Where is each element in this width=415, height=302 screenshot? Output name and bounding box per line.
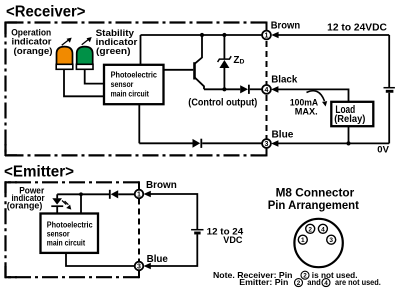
diode D4 triangle — [111, 190, 119, 198]
arrow into emitter pin 1 — [144, 191, 151, 198]
diode D2 triangle — [193, 139, 201, 148]
wire diode D4 to pin 1 — [118, 193, 135, 195]
svg-text:main circuit: main circuit — [47, 238, 85, 248]
pin 3 — [262, 139, 271, 148]
wire load to 0V rail — [348, 126, 350, 143]
LED light emission arrows — [62, 201, 71, 210]
svg-text:VDC: VDC — [223, 235, 242, 246]
battery B1 top lead — [388, 35, 390, 87]
wire main circuit bottom to blue line — [138, 104, 140, 143]
svg-text:Brown: Brown — [146, 180, 177, 191]
diode D2 cathode bar — [200, 139, 202, 148]
LED power indicator triangle — [52, 198, 62, 204]
svg-text:Brown: Brown — [271, 21, 300, 32]
0V rail wire — [278, 142, 390, 144]
emitter enclosure corner stubs — [5, 182, 17, 278]
blue internal wire left part — [139, 142, 192, 144]
note line 2 circled pin 2 — [295, 279, 303, 288]
battery B2 bottom lead — [150, 235, 197, 267]
svg-text:1: 1 — [137, 192, 141, 199]
load box — [331, 102, 373, 126]
LED power indicator cathode lead — [56, 207, 58, 214]
svg-text:Pin Arrangement: Pin Arrangement — [268, 200, 359, 212]
wire pin 1 to battery positive — [278, 34, 389, 36]
current flow arrow 100mA — [307, 91, 328, 107]
diode D1 cathode bar — [248, 85, 250, 94]
svg-text:3: 3 — [265, 141, 269, 148]
transistor Q1 emitter — [195, 78, 204, 90]
svg-text:(orange): (orange) — [7, 201, 43, 211]
node load 0V junction — [346, 141, 350, 145]
battery B2 positive plate — [191, 229, 203, 231]
wire green LED to main circuit — [85, 69, 104, 83]
M8 connector pin 2 — [306, 224, 315, 233]
receiver enclosure dashed box bottom edge — [5, 154, 267, 156]
wire main circuit top to +V rail — [140, 35, 142, 65]
zener diode ZD cathode bar — [218, 56, 232, 62]
wire pin 4 to load — [278, 89, 349, 101]
note line 2 circled pin 4 — [322, 279, 330, 288]
LED operation indicator (orange) — [56, 47, 73, 70]
node emitter top junction — [79, 192, 83, 196]
node collector junction — [200, 33, 204, 37]
svg-text:1: 1 — [301, 237, 305, 244]
wire emitter main circuit bottom to pin 3 — [66, 253, 135, 266]
svg-text:2: 2 — [308, 226, 312, 233]
pin 4 — [262, 85, 271, 94]
svg-text:4: 4 — [324, 280, 328, 287]
emitter photoelectric sensor main circuit block — [41, 214, 99, 253]
transistor Q1 base wire — [164, 69, 194, 71]
svg-text:3: 3 — [137, 264, 141, 271]
diode D4 cathode bar — [109, 190, 111, 199]
LED stability indicator (green) — [76, 47, 93, 70]
zener diode ZD triangle — [219, 60, 229, 68]
svg-text:(orange): (orange) — [14, 46, 53, 56]
note line 1 circled pin 2 — [301, 271, 309, 280]
emitter enclosure right edge top link to pin 1 — [138, 181, 140, 189]
diode D1 triangle — [240, 85, 248, 93]
emitter pin 3 — [135, 262, 144, 271]
receiver enclosure dashed box left edge — [4, 22, 6, 157]
svg-text:4: 4 — [321, 226, 325, 233]
wire orange LED to main circuit — [64, 69, 104, 96]
receiver enclosure right edge dashed segment pin1-pin4 — [266, 41, 268, 85]
zener diode ZD bottom lead — [223, 68, 225, 89]
transistor Q1 base bar — [193, 62, 196, 79]
receiver enclosure corner stubs — [5, 22, 17, 156]
svg-text:are not used.: are not used. — [335, 277, 381, 287]
arrow into pin 4 — [271, 86, 278, 93]
svg-text:(green): (green) — [96, 46, 131, 56]
emitter enclosure dashed box top edge — [5, 181, 139, 183]
annotation arrow orange LED — [62, 38, 72, 46]
arrow into emitter pin 3 — [144, 263, 151, 270]
svg-text:M8 Connector: M8 Connector — [276, 188, 355, 200]
svg-text:MAX.: MAX. — [295, 107, 318, 118]
receiver photoelectric sensor main circuit block — [104, 65, 164, 104]
svg-text:0V: 0V — [377, 144, 389, 155]
arrow into pin 1 — [271, 32, 278, 39]
receiver enclosure right edge bottom link to pin 3 — [266, 148, 268, 157]
pin 1 — [262, 31, 271, 40]
wire diode D2 to pin 3 — [202, 142, 262, 144]
svg-text:4: 4 — [265, 87, 269, 94]
zener diode ZD top lead — [223, 35, 225, 59]
battery B1 positive plate — [384, 87, 395, 89]
emitter pin 1 — [135, 190, 144, 199]
svg-text:Photoelectric: Photoelectric — [111, 69, 158, 79]
emitter enclosure dashed box bottom edge — [5, 276, 139, 278]
LED power indicator cathode bar — [51, 205, 63, 207]
svg-text:Black: Black — [271, 75, 298, 86]
svg-text:Blue: Blue — [272, 129, 294, 140]
svg-text:(Control output): (Control output) — [188, 98, 257, 109]
wire junction to main circuit top — [80, 194, 82, 213]
LED power indicator anode lead — [56, 194, 58, 198]
emitter enclosure right edge bottom link to pin 3 — [138, 270, 140, 278]
battery B2 negative plate — [194, 232, 200, 235]
svg-text:main circuit: main circuit — [111, 88, 149, 98]
svg-text:<Emitter>: <Emitter> — [4, 163, 74, 180]
battery B1 bottom lead — [388, 93, 390, 144]
node zener junction — [222, 33, 226, 37]
svg-text:1: 1 — [265, 33, 269, 40]
node zener output junction — [222, 87, 226, 91]
svg-text:Emitter: Pin: Emitter: Pin — [239, 277, 288, 287]
M8 connector pin 3 — [327, 235, 336, 244]
svg-text:2: 2 — [297, 280, 301, 287]
output wire transistor to diode — [204, 88, 240, 90]
transistor Q1 collector — [195, 35, 202, 64]
emitter top wire LED to diode — [57, 193, 110, 195]
svg-text:(Relay): (Relay) — [334, 113, 365, 125]
M8 connector pin 4 — [318, 224, 327, 233]
receiver enclosure right edge dashed segment pin4-pin3 — [266, 95, 268, 139]
svg-text:3: 3 — [329, 237, 333, 244]
emitter enclosure dashed box left edge — [4, 181, 6, 278]
M8 connector pin 1 — [298, 235, 307, 244]
annotation arrow green LED — [82, 37, 92, 45]
wire emitter pin 1 to battery — [150, 194, 197, 229]
battery B1 negative plate — [386, 90, 394, 93]
receiver enclosure right edge top link to pin 1 — [266, 22, 268, 31]
M8 connector body circle — [294, 219, 342, 267]
arrow into pin 3 — [271, 140, 278, 147]
wire diode D1 to pin 4 — [250, 88, 262, 90]
+V rail wire — [141, 34, 263, 36]
svg-text:12 to 24VDC: 12 to 24VDC — [327, 22, 387, 33]
emitter enclosure right edge dashed segment — [138, 199, 140, 262]
receiver enclosure dashed box top edge — [5, 21, 267, 23]
svg-text:and: and — [307, 277, 321, 287]
svg-text:<Receiver>: <Receiver> — [6, 4, 86, 21]
